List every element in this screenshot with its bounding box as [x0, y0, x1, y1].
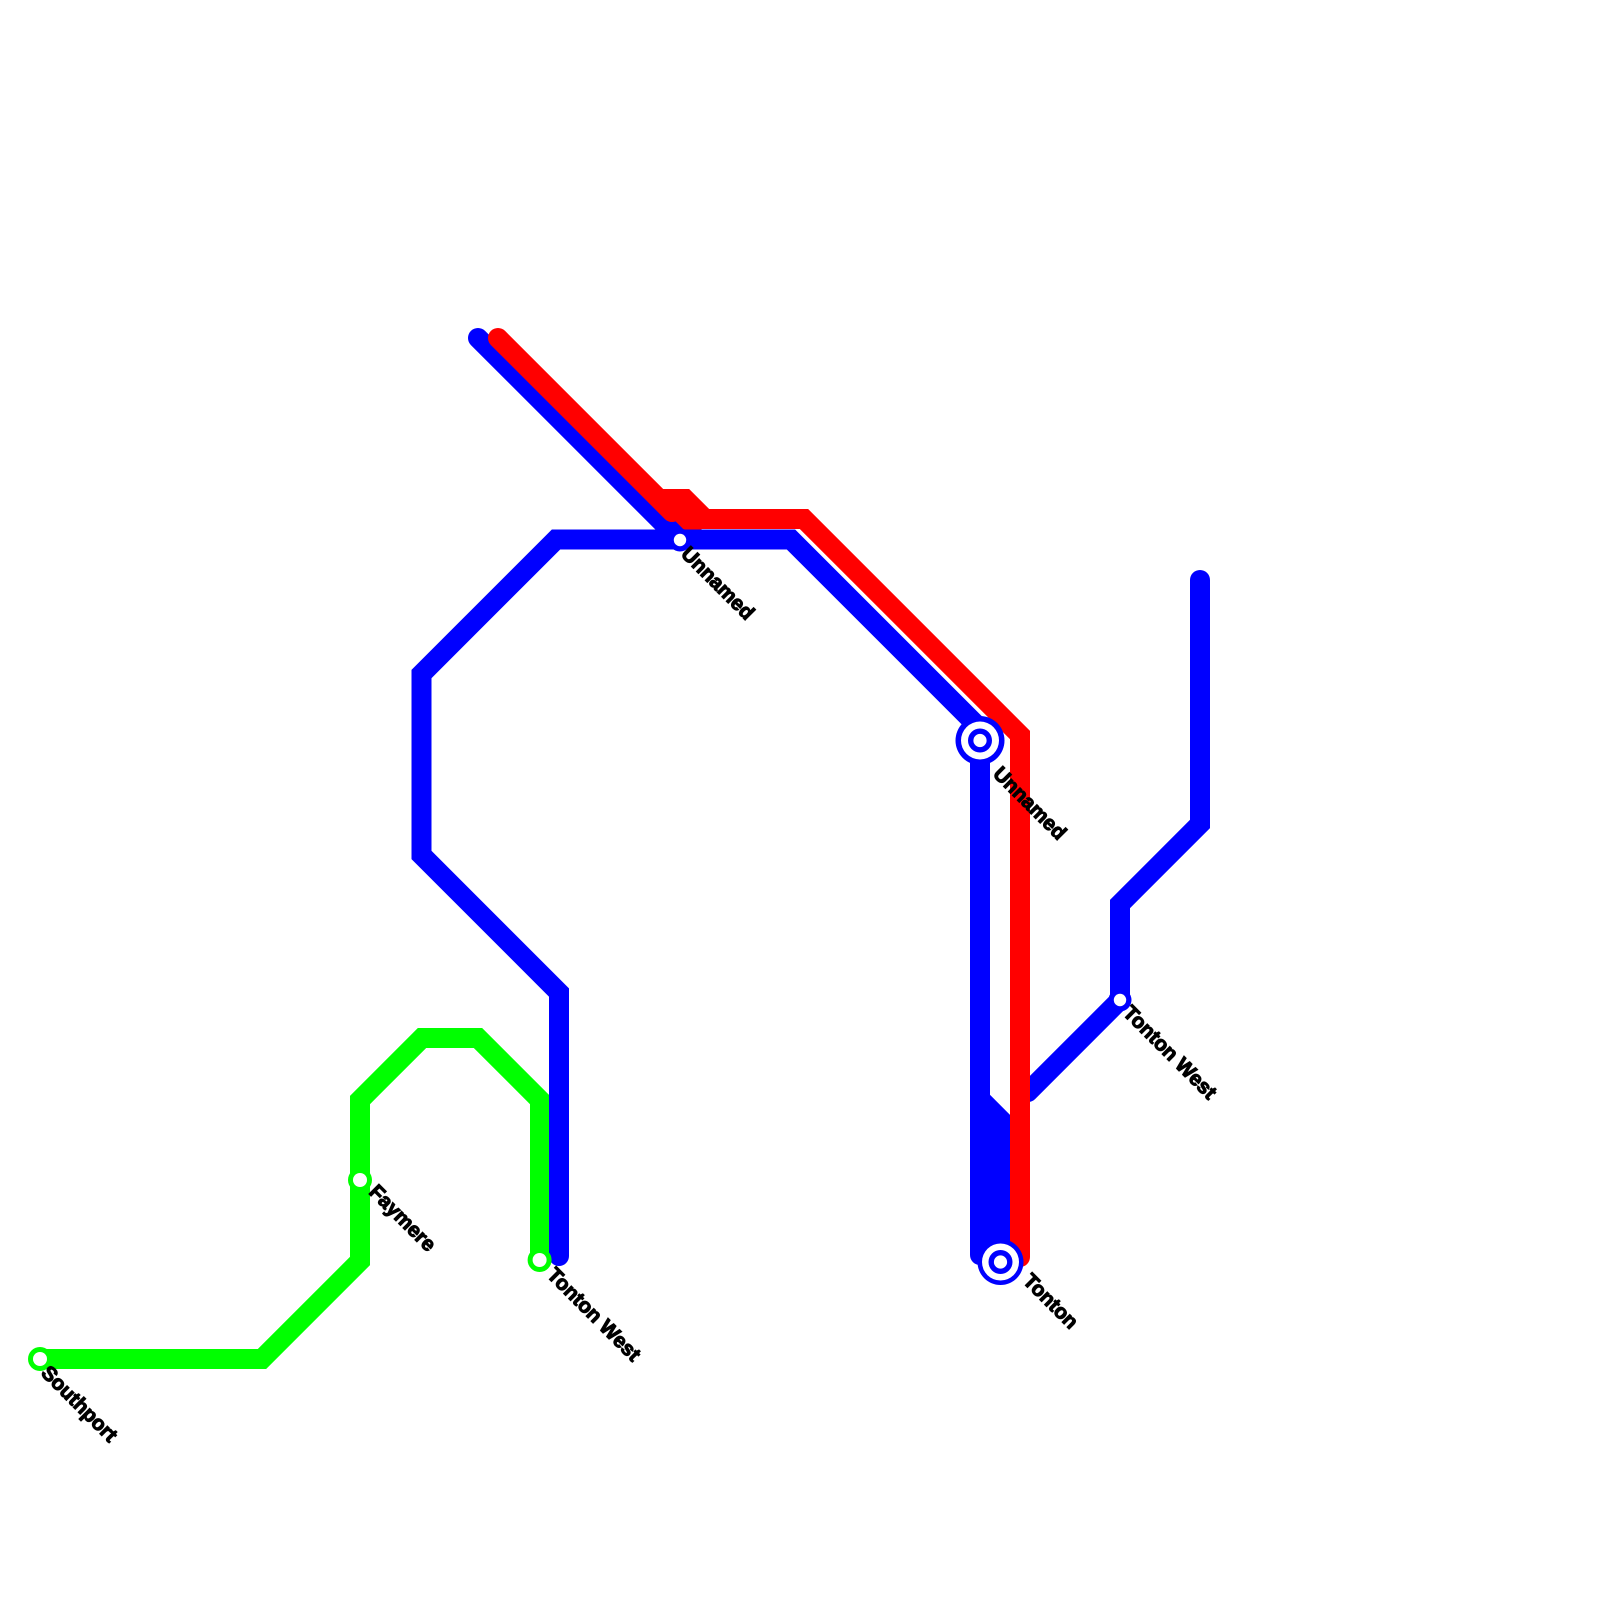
blue line loop: Unnamed west to Tonton West terminus: [422, 540, 681, 1257]
blue second track into Tonton: [980, 1099, 1000, 1255]
station Faymere: [348, 1168, 372, 1192]
station Tonton (interchange): [978, 1239, 1024, 1285]
station Tonton West (blue branch): [1109, 989, 1132, 1012]
station Unnamed (interchange): [956, 716, 1005, 765]
blue branch NE: cap via Tonton West station ending at red line: [1028, 580, 1200, 1092]
red line jog through Unnamed then to Tonton: [660, 499, 1020, 1257]
red line NW diagonal tip under junction: [672, 512, 692, 532]
station Tonton West (green terminus): [528, 1248, 552, 1272]
station Unnamed (small, on blue at junction): [669, 529, 692, 552]
station Southport: [28, 1347, 52, 1371]
blue line NW cap through Unnamed to interchange and down to Tonton: [478, 338, 980, 1255]
green line Southport to Tonton West: [40, 1038, 540, 1359]
red line NW diagonal from cap: [498, 338, 672, 512]
